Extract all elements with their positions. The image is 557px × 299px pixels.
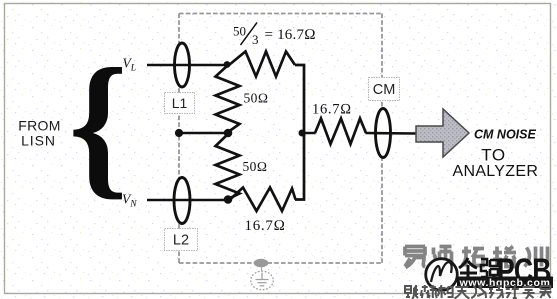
resistor 16.7 bottom (230, 188, 296, 212)
svg-text:50Ω: 50Ω (244, 91, 269, 106)
watermark brand PCB (497, 252, 551, 290)
node center tap right (224, 129, 233, 138)
watermark url bar (457, 277, 553, 289)
node CM line (299, 130, 306, 137)
svg-text:{: { (69, 36, 128, 213)
ground (251, 266, 274, 290)
watermark logo mark (431, 262, 452, 282)
resistor 16.7 mid (315, 119, 366, 145)
label box CM (369, 78, 400, 101)
watermark logo circle (426, 259, 458, 291)
label box L1 (165, 93, 195, 114)
svg-text:L1: L1 (172, 95, 188, 111)
inductor L2 (174, 178, 190, 224)
wire VL (147, 64, 226, 67)
svg-text:50: 50 (233, 24, 246, 39)
value 50/3 = 16.7 (233, 23, 316, 48)
watermark brand 华 (459, 258, 477, 281)
svg-text:L2: L2 (173, 233, 189, 249)
resistor 50 upper (216, 66, 240, 132)
svg-text:50Ω: 50Ω (243, 159, 268, 174)
wire CM right (366, 132, 417, 135)
svg-text:= 16.7Ω: = 16.7Ω (265, 27, 316, 43)
watermark text row (gray, top) (405, 247, 548, 268)
svg-text:16.7Ω: 16.7Ω (245, 218, 286, 234)
svg-text:CM NOISE: CM NOISE (474, 128, 536, 142)
arrow to analyzer (416, 109, 469, 157)
svg-text:CM: CM (373, 82, 396, 98)
node center tap left (175, 129, 183, 137)
svg-text:FROM: FROM (18, 118, 60, 134)
svg-text:ANALYZER: ANALYZER (453, 163, 539, 180)
brace (69, 36, 128, 213)
watermark brand 强 (481, 259, 498, 279)
wire CM left (302, 132, 316, 135)
node VL junction (224, 61, 231, 68)
ground node blob on shield (254, 259, 269, 268)
svg-text:TO: TO (481, 146, 506, 165)
choke CM (376, 109, 391, 158)
watermark text row (gray, bottom) (405, 285, 551, 299)
wire right vertical (295, 65, 304, 200)
label box L2 (165, 229, 198, 251)
wire VN (147, 199, 227, 202)
svg-text:3: 3 (252, 32, 259, 47)
shield box (dashed enclosure) (179, 14, 382, 264)
svg-text:16.7Ω: 16.7Ω (312, 102, 352, 118)
resistor 50/3 top (229, 52, 295, 77)
resistor 50 lower (216, 134, 240, 199)
inductor L1 (175, 43, 190, 87)
svg-text:LISN: LISN (21, 133, 56, 149)
svg-text:www.hqpcb.com: www.hqpcb.com (459, 277, 551, 289)
wire center tap (179, 132, 228, 135)
node VN junction (224, 195, 233, 204)
